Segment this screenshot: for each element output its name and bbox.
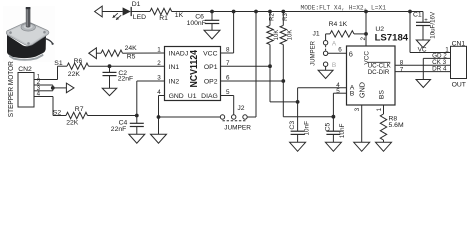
wire xyxy=(45,85,67,91)
wire S2 xyxy=(45,97,67,116)
junction xyxy=(281,79,285,83)
svg-text:5: 5 xyxy=(226,89,230,96)
svg-text:JUMPER: JUMPER xyxy=(224,124,251,131)
wire R7 to IN2 xyxy=(88,115,137,117)
ground xyxy=(416,40,430,48)
ground xyxy=(204,30,220,39)
resistor R7 22K xyxy=(66,106,88,126)
op-amp U1 NCV1124 xyxy=(157,46,230,100)
wire R5 to INADJ xyxy=(123,52,165,54)
wire U1 VCC xyxy=(221,12,234,54)
jumper J2 xyxy=(159,105,257,131)
svg-text:1K: 1K xyxy=(175,12,184,19)
wire VC xyxy=(410,12,451,54)
svg-text:GND: GND xyxy=(169,93,184,100)
wire channel A xyxy=(270,88,347,131)
wire xyxy=(282,45,284,117)
svg-text:OP2: OP2 xyxy=(204,79,218,86)
svg-text:JUMPER: JUMPER xyxy=(310,40,316,65)
svg-text:S1: S1 xyxy=(54,60,63,67)
wire CLK xyxy=(395,64,451,66)
svg-text:6: 6 xyxy=(226,75,230,82)
junction xyxy=(157,115,161,119)
svg-text:OUT: OUT xyxy=(452,82,466,89)
svg-text:22K: 22K xyxy=(68,71,81,78)
wire DIR xyxy=(395,71,451,73)
junction xyxy=(210,10,214,14)
pin 2 label xyxy=(360,36,367,40)
ground xyxy=(129,134,145,143)
LED D1 xyxy=(113,1,147,21)
resistor R4 1K xyxy=(326,21,366,40)
junction xyxy=(281,10,285,14)
svg-text:5: 5 xyxy=(336,88,340,95)
svg-text:22nF: 22nF xyxy=(118,76,134,83)
ground xyxy=(102,88,117,95)
svg-text:C5: C5 xyxy=(325,122,332,131)
junction xyxy=(408,10,412,14)
svg-text:VCC: VCC xyxy=(203,50,217,57)
capacitor C6 100nF xyxy=(187,12,220,31)
svg-text:GND: GND xyxy=(358,82,367,98)
IC U2 LS7184 xyxy=(336,26,409,105)
svg-text:10K: 10K xyxy=(274,30,280,41)
photo: stepper motor xyxy=(3,6,55,62)
svg-text:3: 3 xyxy=(157,75,161,82)
svg-text:CN1: CN1 xyxy=(452,41,466,48)
wire xyxy=(131,11,150,13)
wire OP2 xyxy=(221,80,284,82)
svg-text:1: 1 xyxy=(157,46,161,53)
svg-text:22nF: 22nF xyxy=(111,126,127,133)
wire xyxy=(325,66,327,70)
ground xyxy=(416,80,431,88)
svg-text:J2: J2 xyxy=(237,105,244,112)
resistor R3 10K xyxy=(280,12,293,45)
connector CN2 xyxy=(18,66,45,107)
connector CN1 xyxy=(432,41,466,89)
svg-text:24K: 24K xyxy=(125,45,138,52)
svg-text:NCV1124: NCV1124 xyxy=(189,50,200,88)
ground xyxy=(376,142,392,151)
junction xyxy=(108,64,112,68)
wire GD xyxy=(423,58,450,79)
off-page connector (coil tap) xyxy=(66,83,74,93)
svg-text:10uF/16V: 10uF/16V xyxy=(430,11,437,39)
capacitor C3 10nF xyxy=(289,121,310,143)
svg-text:MODE:FLT X4, H=X2, L=X1: MODE:FLT X4, H=X2, L=X1 xyxy=(301,4,387,11)
capacitor C2 22nF xyxy=(103,66,134,88)
off-page connector (LED supply) xyxy=(95,6,123,17)
off-page connector (INADJ) xyxy=(89,48,101,59)
svg-text:DIAG: DIAG xyxy=(201,93,218,100)
svg-text:2: 2 xyxy=(157,60,161,67)
wire U2 GND pin3 xyxy=(354,105,362,142)
svg-text:2: 2 xyxy=(360,36,367,40)
junction xyxy=(268,64,272,68)
svg-text:8: 8 xyxy=(226,46,230,53)
svg-text:7: 7 xyxy=(400,66,404,73)
svg-text:IN2: IN2 xyxy=(169,79,180,86)
svg-text:LS7184: LS7184 xyxy=(375,32,409,42)
svg-text:1K: 1K xyxy=(339,21,348,28)
junction xyxy=(268,10,272,14)
capacitor C1 10uF xyxy=(413,11,437,40)
wire R6 to IN1 xyxy=(89,65,165,67)
svg-text:C3: C3 xyxy=(289,121,296,130)
svg-text:OP1: OP1 xyxy=(204,64,218,71)
capacitor C5 10nF xyxy=(325,122,347,142)
svg-text:IN1: IN1 xyxy=(169,64,180,71)
svg-text:R1: R1 xyxy=(159,15,168,22)
svg-text:B: B xyxy=(332,62,336,69)
junction xyxy=(51,86,55,90)
junction xyxy=(254,10,258,14)
svg-text:INADJ: INADJ xyxy=(169,50,189,57)
svg-text:U1: U1 xyxy=(188,93,197,100)
wire R4/pin2 xyxy=(365,12,367,47)
wire VCC rail xyxy=(172,11,423,13)
svg-text:4: 4 xyxy=(37,91,41,98)
wire J2 to VCC xyxy=(255,12,257,118)
ground xyxy=(318,70,333,78)
svg-text:6: 6 xyxy=(338,46,342,53)
svg-text:C1: C1 xyxy=(413,12,422,19)
svg-text:10nF: 10nF xyxy=(339,123,346,138)
label S1 xyxy=(54,60,63,67)
svg-text:BS: BS xyxy=(379,90,386,100)
junction xyxy=(135,114,139,118)
svg-text:A: A xyxy=(332,41,337,48)
svg-text:100nF: 100nF xyxy=(187,20,206,27)
svg-text:1: 1 xyxy=(376,107,383,111)
svg-text:R3: R3 xyxy=(283,13,289,21)
svg-text:DC-DIR: DC-DIR xyxy=(368,69,390,76)
resistor R6 22K xyxy=(67,58,89,78)
svg-text:S2: S2 xyxy=(53,110,62,117)
svg-text:5.6M: 5.6M xyxy=(389,122,404,129)
label STEPPER MOTOR xyxy=(6,61,15,117)
junction xyxy=(332,115,336,119)
ground xyxy=(151,134,167,143)
svg-text:R2: R2 xyxy=(270,13,276,21)
svg-text:+: + xyxy=(424,18,428,24)
svg-text:VC: VC xyxy=(418,47,427,54)
capacitor C4 22nF xyxy=(111,116,144,135)
wire IN2 riser xyxy=(137,81,165,116)
junction xyxy=(364,32,368,36)
svg-text:R6: R6 xyxy=(74,58,83,65)
svg-text:R5: R5 xyxy=(127,53,136,60)
junction xyxy=(296,100,300,104)
ground xyxy=(290,142,306,151)
svg-text:B: B xyxy=(350,90,355,97)
svg-text:6: 6 xyxy=(349,49,353,58)
wire DIAG xyxy=(221,96,234,115)
svg-text:10nF: 10nF xyxy=(304,121,311,136)
resistor R1 1K xyxy=(150,8,184,21)
svg-text:DR 4: DR 4 xyxy=(432,65,447,72)
resistor R5 24K xyxy=(101,45,137,60)
wire xyxy=(269,45,271,102)
svg-text:CN2: CN2 xyxy=(18,66,32,73)
jumper J1 xyxy=(310,31,337,69)
wire S1 xyxy=(45,66,68,79)
svg-text:10K: 10K xyxy=(287,30,293,41)
wire J1 mode xyxy=(328,46,347,53)
svg-text:J1: J1 xyxy=(313,31,320,38)
svg-text:3: 3 xyxy=(354,107,361,111)
resistor R8 5.6M xyxy=(376,105,404,142)
svg-text:D1: D1 xyxy=(132,1,141,8)
wire channel B xyxy=(283,93,346,131)
resistor R2 10K xyxy=(267,12,280,45)
svg-text:R4: R4 xyxy=(329,21,338,28)
svg-text:R7: R7 xyxy=(75,106,84,113)
svg-text:22K: 22K xyxy=(66,119,79,126)
wire OP1 xyxy=(221,65,271,67)
junction xyxy=(364,10,368,14)
ground xyxy=(325,142,341,151)
svg-text:LED: LED xyxy=(133,14,146,21)
junction xyxy=(232,10,236,14)
label S2 xyxy=(53,110,62,117)
ground xyxy=(354,142,370,151)
note MODE xyxy=(301,4,387,11)
svg-text:4: 4 xyxy=(157,89,161,96)
svg-text:STEPPER MOTOR: STEPPER MOTOR xyxy=(6,61,15,117)
wire U1 GND xyxy=(159,96,165,135)
